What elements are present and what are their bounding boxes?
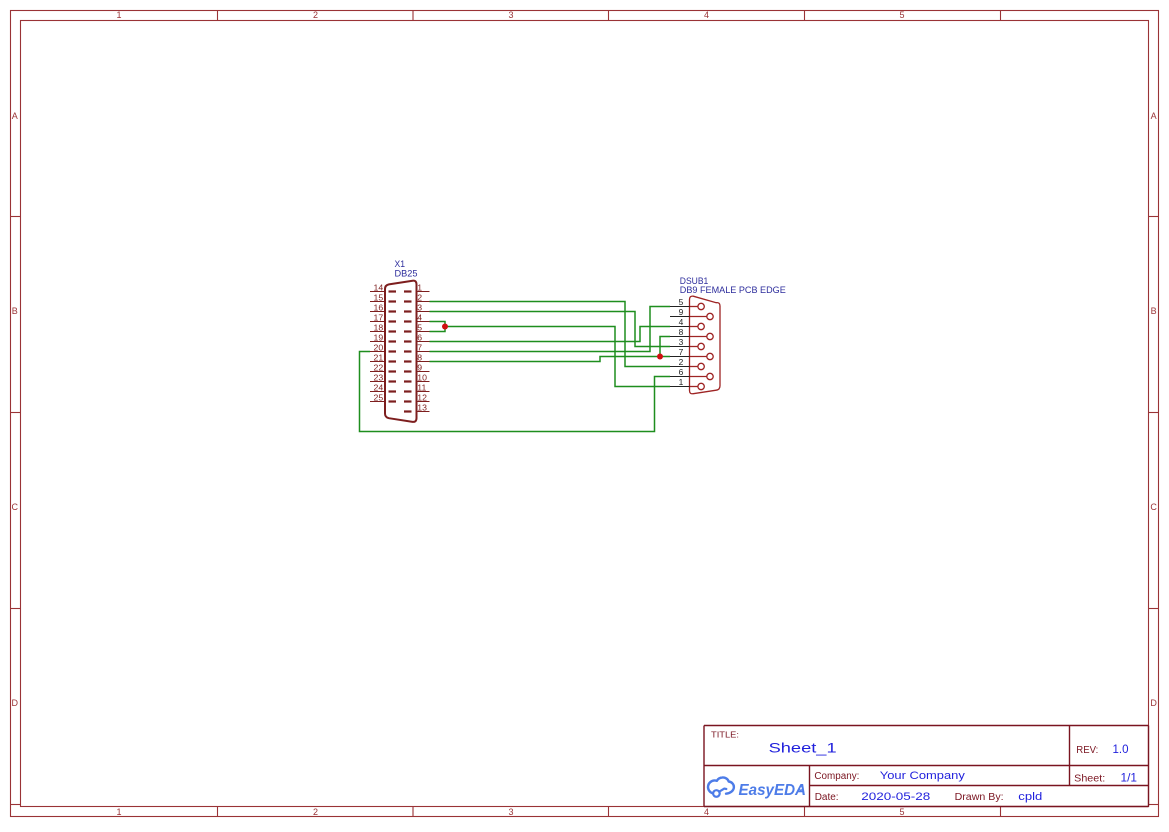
DSUB1 pin 6: [670, 367, 713, 380]
svg-text:1: 1: [116, 807, 121, 817]
svg-text:Company:: Company:: [814, 771, 859, 782]
X1 pin 24: [370, 383, 396, 393]
svg-text:Your Company: Your Company: [880, 770, 966, 782]
svg-text:6: 6: [417, 333, 422, 343]
X1 pin 8: [404, 353, 430, 363]
svg-text:A: A: [1151, 111, 1157, 121]
svg-text:1: 1: [116, 10, 121, 20]
value label DB9 FEMALE PCB EDGE: [680, 285, 786, 295]
wire X1.20 to DSUB1.6: [360, 352, 671, 432]
svg-text:15: 15: [374, 293, 384, 303]
svg-text:1/1: 1/1: [1121, 770, 1138, 784]
DSUB1 pin 5: [670, 297, 704, 310]
X1 pin 23: [370, 373, 396, 383]
X1 pin 16: [370, 303, 396, 313]
svg-text:4: 4: [704, 807, 709, 817]
svg-text:Sheet:: Sheet:: [1074, 772, 1105, 784]
DSUB1 pin 7: [670, 347, 713, 360]
svg-text:4: 4: [417, 313, 422, 323]
svg-text:23: 23: [374, 373, 384, 383]
value label DB25: [395, 268, 418, 278]
reference designator DSUB1: [680, 276, 709, 286]
svg-text:B: B: [1151, 306, 1157, 316]
svg-text:19: 19: [374, 333, 384, 343]
X1 pin 1: [404, 283, 430, 293]
svg-text:16: 16: [374, 303, 384, 313]
DSUB1 pin 3: [670, 337, 704, 350]
svg-text:25: 25: [374, 393, 384, 403]
svg-text:DB9 FEMALE PCB EDGE: DB9 FEMALE PCB EDGE: [680, 285, 786, 295]
svg-text:D: D: [1150, 698, 1157, 708]
X1 pin 6: [404, 333, 430, 343]
X1 pin 25: [370, 393, 396, 403]
X1 pin 9: [404, 363, 430, 373]
wire X1.3 to DSUB1.3: [430, 312, 671, 347]
svg-text:5: 5: [899, 807, 904, 817]
X1 pin 3: [404, 303, 430, 313]
junction at X1 pins 4-5 tie: [442, 324, 448, 330]
wire X1.2 to DSUB1.2: [430, 302, 671, 367]
X1 pin 11: [404, 383, 430, 393]
svg-text:3: 3: [417, 303, 422, 313]
junction at DSUB1 pin 7: [657, 354, 663, 360]
DSUB1 pin 9: [670, 307, 713, 320]
svg-text:11: 11: [417, 383, 426, 393]
svg-text:4: 4: [679, 317, 684, 327]
svg-text:cpld: cpld: [1018, 791, 1042, 803]
wire X1.6 to DSUB1.4: [430, 327, 671, 342]
X1 pin 14: [370, 283, 396, 293]
svg-text:2: 2: [313, 10, 318, 20]
svg-text:DB25: DB25: [395, 268, 418, 278]
svg-text:Sheet_1: Sheet_1: [769, 740, 837, 755]
svg-text:12: 12: [417, 393, 427, 403]
wire DSUB1.8 branch: [660, 337, 670, 357]
X1 pin 18: [370, 323, 396, 333]
svg-text:13: 13: [417, 403, 427, 413]
svg-text:TITLE:: TITLE:: [711, 730, 739, 740]
svg-text:1: 1: [679, 377, 684, 387]
X1 pin 17: [370, 313, 396, 323]
X1 pin 5: [404, 323, 430, 333]
X1 pin 21: [370, 353, 396, 363]
X1 pin 22: [370, 363, 396, 373]
svg-text:22: 22: [374, 363, 384, 373]
svg-text:8: 8: [417, 353, 422, 363]
svg-text:24: 24: [374, 383, 384, 393]
wire X1.7 to DSUB1.5: [430, 307, 671, 352]
svg-text:17: 17: [374, 313, 384, 323]
X1 pin 10: [404, 373, 430, 383]
X1 pin 7: [404, 343, 430, 353]
DSUB1 pin 8: [670, 327, 713, 340]
wire X1.8 to DSUB1.7: [430, 357, 671, 362]
svg-text:7: 7: [679, 347, 684, 357]
connector DSUB1 body: [690, 296, 721, 394]
svg-text:3: 3: [508, 807, 513, 817]
X1 pin 4: [404, 313, 430, 323]
svg-text:5: 5: [899, 10, 904, 20]
svg-text:2: 2: [313, 807, 318, 817]
svg-text:9: 9: [679, 307, 684, 317]
svg-text:5: 5: [417, 323, 422, 333]
svg-text:3: 3: [679, 337, 684, 347]
svg-text:1.0: 1.0: [1113, 742, 1129, 756]
svg-text:14: 14: [374, 283, 384, 293]
svg-text:18: 18: [374, 323, 384, 333]
svg-text:2: 2: [679, 357, 684, 367]
svg-text:6: 6: [679, 367, 684, 377]
X1 pin 15: [370, 293, 396, 303]
svg-text:21: 21: [374, 353, 384, 363]
X1 pin 13: [404, 403, 430, 413]
svg-text:2: 2: [417, 293, 422, 303]
svg-text:C: C: [11, 502, 18, 512]
svg-text:C: C: [1150, 502, 1157, 512]
svg-text:2020-05-28: 2020-05-28: [861, 791, 930, 803]
svg-text:Drawn By:: Drawn By:: [955, 792, 1004, 803]
X1 pin 12: [404, 393, 430, 403]
svg-text:9: 9: [417, 363, 422, 373]
svg-text:10: 10: [417, 373, 427, 383]
DSUB1 pin 4: [670, 317, 704, 330]
X1 pin 20: [370, 343, 396, 353]
wire X1.4/5 tap to DSUB1.1: [445, 327, 670, 387]
X1 pin 2: [404, 293, 430, 303]
svg-text:3: 3: [508, 10, 513, 20]
svg-text:D: D: [11, 698, 18, 708]
wire X1.4 to X1.5 tie: [430, 322, 446, 332]
reference designator X1: [395, 259, 406, 269]
svg-text:REV:: REV:: [1076, 744, 1098, 756]
svg-text:A: A: [12, 111, 18, 121]
svg-text:4: 4: [704, 10, 709, 20]
svg-text:8: 8: [679, 327, 684, 337]
svg-text:1: 1: [417, 283, 422, 293]
svg-text:B: B: [12, 306, 18, 316]
DSUB1 pin 1: [670, 377, 704, 390]
svg-text:20: 20: [374, 343, 384, 353]
X1 pin 19: [370, 333, 396, 343]
svg-text:7: 7: [417, 343, 422, 353]
svg-text:5: 5: [679, 297, 684, 307]
svg-text:Date:: Date:: [815, 792, 839, 803]
connector X1 DB25 body: [385, 281, 417, 422]
svg-text:EasyEDA: EasyEDA: [739, 782, 807, 799]
DSUB1 pin 2: [670, 357, 704, 370]
